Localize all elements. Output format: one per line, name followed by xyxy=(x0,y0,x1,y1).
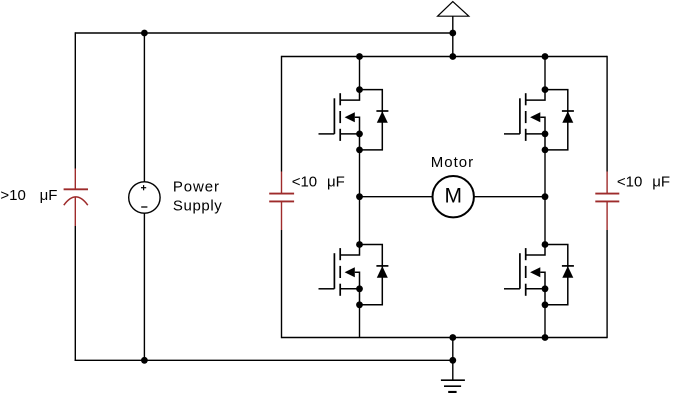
svg-text:>10: >10 xyxy=(0,187,25,204)
svg-text:<10: <10 xyxy=(292,174,317,191)
svg-text:μF: μF xyxy=(327,174,345,191)
svg-text:μF: μF xyxy=(40,187,58,204)
node junction top bus / left leg xyxy=(356,53,363,60)
svg-text:μF: μF xyxy=(652,174,670,191)
diode D4 (body diode of Q4) xyxy=(545,245,574,305)
wire motor right xyxy=(474,196,545,198)
ground xyxy=(441,380,465,392)
wire left leg: Q1 source to Q3 drain xyxy=(359,150,361,245)
wire right leg: Q4 source to bottom bus xyxy=(544,305,546,338)
svg-text:Power: Power xyxy=(173,179,220,196)
wire bottom rail to ground xyxy=(452,360,454,380)
diode D3 (body diode of Q3) xyxy=(360,245,389,305)
bridge 0V bus (box bottom edge) xyxy=(282,337,608,339)
wire box left edge upper xyxy=(281,56,283,172)
transistor Q2 (upper right NMOS) xyxy=(504,86,548,153)
wire motor left xyxy=(360,196,433,198)
wire power supply top lead xyxy=(143,33,145,182)
svg-text:<10: <10 xyxy=(617,174,642,191)
power flag VCC xyxy=(438,2,469,17)
node junction top bus / right leg xyxy=(542,53,549,60)
capacitor C3 <10uF xyxy=(595,172,619,231)
wire box right edge upper xyxy=(606,56,608,172)
wire top rail xyxy=(75,32,453,34)
wire right leg: top bus to Q2 drain xyxy=(544,57,546,90)
wire power supply bottom lead xyxy=(143,214,145,361)
wire left leg: Q3 source to bottom bus xyxy=(359,305,361,338)
motor M1 xyxy=(433,176,474,217)
wire left leg top (C1 drop) xyxy=(74,32,76,168)
node junction bottom bus / ground drop xyxy=(449,334,456,341)
wire bottom rail xyxy=(75,359,453,361)
node junction right leg / bottom bus xyxy=(542,334,549,341)
svg-text:M: M xyxy=(444,184,462,207)
node junction VCC drop / top bus xyxy=(449,53,456,60)
node junction top rail / VCC drop xyxy=(449,30,456,37)
wire left leg: top bus to Q1 drain xyxy=(359,57,361,90)
node junction top rail / V1 xyxy=(141,30,148,37)
wire bottom bus to bottom rail xyxy=(452,338,454,361)
capacitor C2 <10uF xyxy=(269,172,294,231)
bridge +V bus (box top edge) xyxy=(282,56,608,58)
node junction left leg / motor wire xyxy=(356,193,363,200)
node junction bottom rail / V1 xyxy=(141,357,148,364)
svg-text:Supply: Supply xyxy=(173,197,222,214)
diode D2 (body diode of Q2) xyxy=(545,90,574,150)
transistor Q1 (upper left NMOS) xyxy=(319,86,363,153)
wire box right edge lower xyxy=(606,230,608,338)
voltage source V1 power supply xyxy=(129,182,160,213)
wire box left edge lower xyxy=(281,230,283,338)
capacitor C1 >10uF polarized xyxy=(64,169,88,227)
wire VCC flag to top rail xyxy=(452,16,454,56)
node junction bottom rail / ground drop xyxy=(449,357,456,364)
wire left leg bottom xyxy=(74,226,76,361)
transistor Q4 (lower right NMOS) xyxy=(504,241,548,308)
transistor Q3 (lower left NMOS) xyxy=(319,241,363,308)
wire right leg: Q2 source to Q4 drain xyxy=(544,150,546,245)
node junction right leg / motor wire xyxy=(542,193,549,200)
svg-text:Motor: Motor xyxy=(431,154,474,171)
diode D1 (body diode of Q1) xyxy=(360,90,389,150)
